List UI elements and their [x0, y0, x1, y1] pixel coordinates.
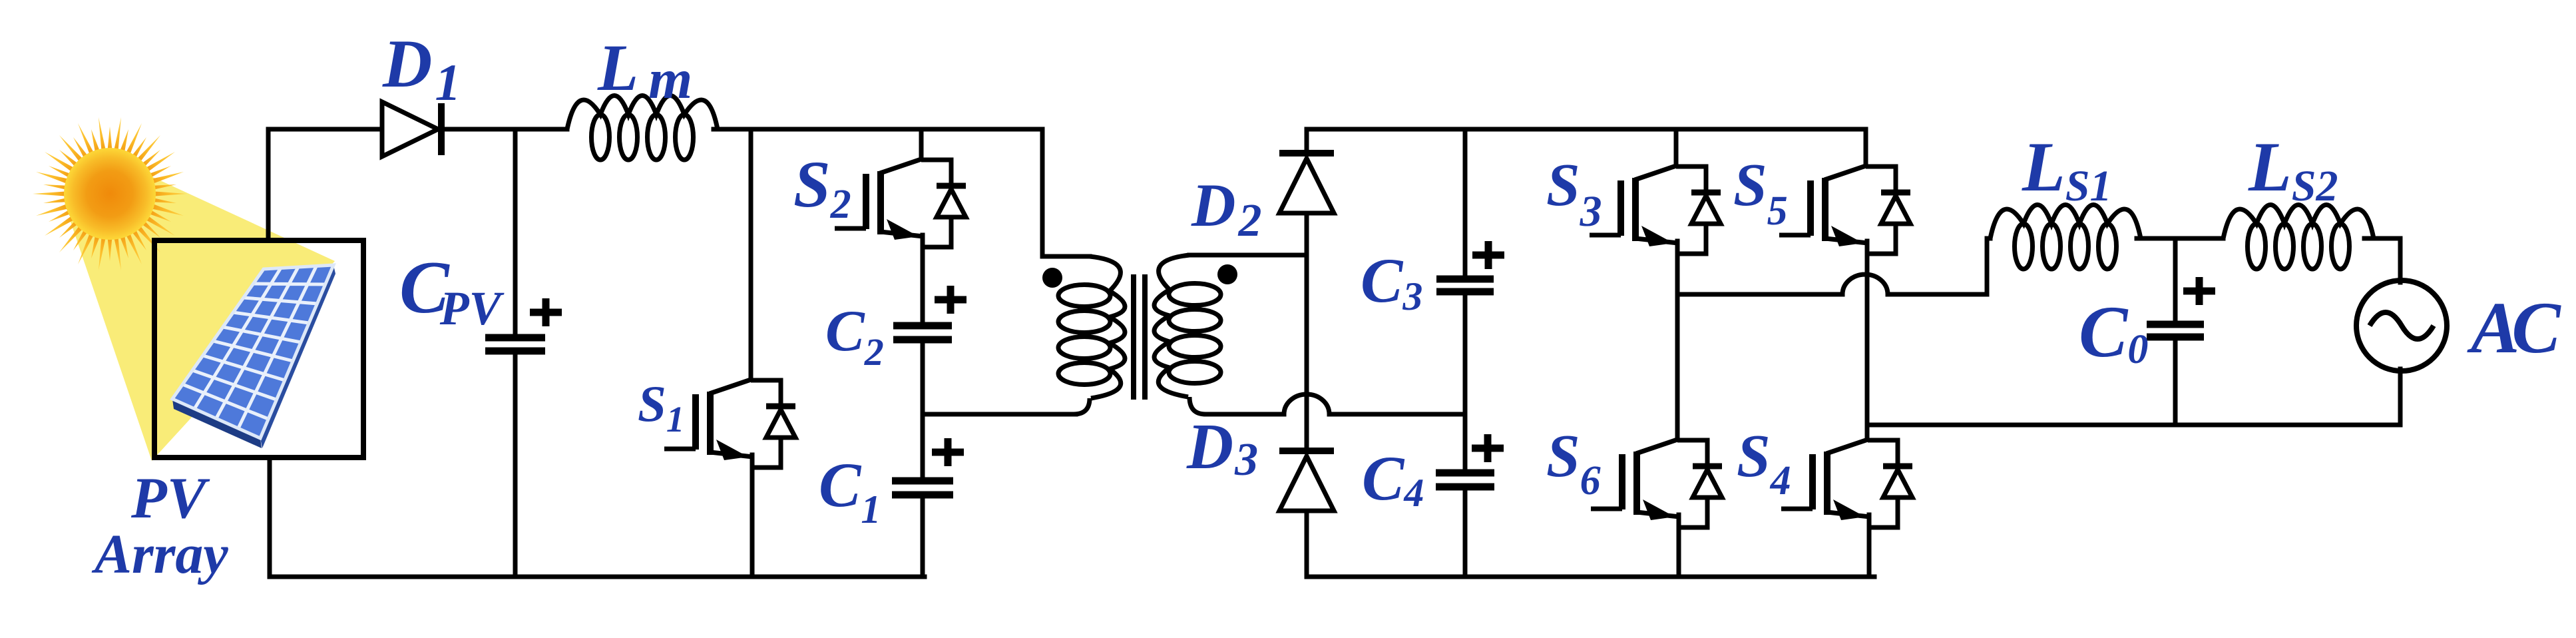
svg-text:AC: AC [2467, 287, 2561, 368]
svg-text:Array: Array [91, 523, 228, 585]
svg-text:PV: PV [130, 466, 210, 531]
